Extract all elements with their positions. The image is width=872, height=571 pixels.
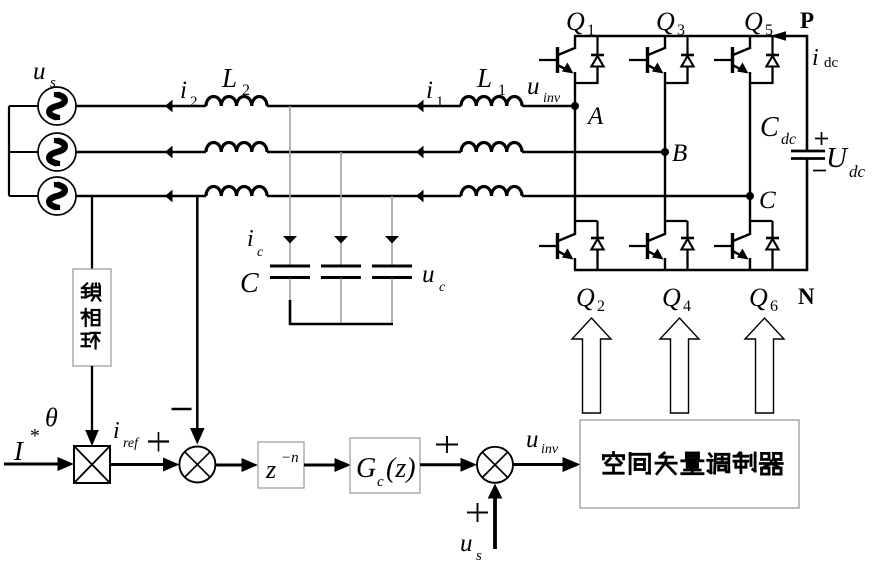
wire z to Gc bbox=[304, 464, 336, 467]
svg-text:i: i bbox=[812, 45, 819, 71]
wire phase line 2 bbox=[76, 151, 665, 153]
arrow into z bbox=[242, 458, 259, 472]
svg-text:dc: dc bbox=[849, 162, 866, 181]
svg-text:u: u bbox=[33, 58, 46, 85]
arrow i1 phase 3 bbox=[416, 190, 424, 203]
arrow i2 phase 1 bbox=[165, 100, 173, 113]
svg-text:s: s bbox=[50, 75, 56, 91]
svg-text:N: N bbox=[798, 284, 815, 309]
AC source V3 bbox=[38, 177, 76, 215]
inductor L1 phase 1 bbox=[461, 97, 522, 107]
svg-text:Q: Q bbox=[576, 283, 595, 312]
transistor Q1 bbox=[539, 36, 604, 106]
svg-text:6: 6 bbox=[770, 298, 778, 315]
wire N rail bbox=[574, 269, 808, 272]
inductor L2 phase 3 bbox=[206, 187, 267, 197]
wire phase3 to PLL bbox=[91, 196, 93, 270]
svg-text:Q: Q bbox=[662, 283, 681, 312]
wire cap branch 1 bbox=[289, 106, 291, 266]
multiplier box bbox=[74, 446, 110, 483]
AC source V2 bbox=[38, 133, 76, 171]
svg-text:2: 2 bbox=[190, 94, 198, 110]
svg-text:Q: Q bbox=[744, 7, 763, 36]
svg-text:u: u bbox=[422, 261, 435, 288]
label PLL 环 bbox=[82, 333, 100, 349]
arrow i2 phase 2 bbox=[165, 146, 173, 159]
arrow i_c 2 bbox=[334, 236, 348, 244]
summing junction 1 bbox=[179, 447, 215, 483]
arrow into sum1 bbox=[163, 458, 180, 472]
summing junction 2 bbox=[477, 447, 513, 483]
arrow I* in bbox=[58, 457, 75, 471]
block z box bbox=[258, 442, 304, 488]
svg-text:C: C bbox=[759, 187, 776, 214]
svg-text:ref: ref bbox=[123, 436, 140, 451]
svg-text:L: L bbox=[221, 63, 237, 93]
wire right rail upper bbox=[806, 35, 809, 150]
wire right rail lower bbox=[806, 159, 809, 271]
inductor L1 phase 3 bbox=[461, 187, 522, 197]
wire mult to sum1 bbox=[110, 463, 165, 466]
wire cap star left bbox=[289, 300, 292, 325]
label minus Udc bbox=[813, 170, 826, 172]
svg-text:C: C bbox=[760, 112, 779, 143]
svg-text:i: i bbox=[113, 418, 120, 444]
svg-text:A: A bbox=[586, 103, 604, 130]
svg-text:*: * bbox=[29, 425, 39, 447]
svg-text:u: u bbox=[527, 73, 540, 100]
svg-text:inv: inv bbox=[543, 91, 561, 106]
svg-text:θ: θ bbox=[45, 403, 58, 432]
svg-text:G: G bbox=[356, 453, 376, 484]
arrow into Gc bbox=[335, 458, 352, 472]
inductor L2 phase 2 bbox=[206, 143, 267, 153]
wire phase line 1 bbox=[76, 105, 575, 107]
wire Gc to sum2 bbox=[420, 463, 462, 466]
hollow gate arrow 1 bbox=[572, 318, 611, 413]
svg-text:Q: Q bbox=[656, 7, 675, 36]
capacitor C phase 2 bbox=[321, 266, 361, 278]
transistor Q3 bbox=[629, 36, 694, 152]
svg-text:4: 4 bbox=[683, 298, 691, 315]
arrow i2 phase 3 bbox=[165, 190, 173, 203]
hollow gate arrow 3 bbox=[745, 318, 784, 413]
svg-text:B: B bbox=[672, 140, 687, 167]
svg-text:5: 5 bbox=[765, 22, 773, 39]
arrow fb into sum1 bbox=[190, 428, 205, 445]
svg-text:3: 3 bbox=[677, 22, 685, 39]
AC source V1 bbox=[38, 87, 76, 125]
wire sum1 to z bbox=[215, 464, 243, 467]
wire phase line 3 bbox=[76, 195, 750, 197]
svg-text:−n: −n bbox=[281, 450, 299, 466]
label plus sum1 bbox=[148, 440, 169, 442]
wire cap branch 3 bbox=[391, 196, 393, 266]
wire phase3 to sum1 bbox=[196, 197, 199, 430]
wire P rail bbox=[574, 35, 808, 38]
svg-text:1: 1 bbox=[436, 94, 444, 110]
label minus sum1 bbox=[172, 408, 192, 411]
svg-text:U: U bbox=[826, 142, 849, 174]
arrow us into sum2 bbox=[488, 484, 503, 499]
arrow i_c 1 bbox=[283, 236, 297, 244]
svg-text:i: i bbox=[180, 77, 187, 104]
wire cap star bus bbox=[289, 323, 393, 325]
wire cap bottom 1 bbox=[289, 279, 291, 302]
wire I* input bbox=[4, 463, 58, 466]
label SVPWM text bbox=[603, 453, 782, 475]
svg-text:P: P bbox=[800, 8, 814, 33]
svg-text:Q: Q bbox=[566, 7, 585, 36]
transistor Q4 bbox=[629, 152, 694, 270]
svg-text:inv: inv bbox=[541, 442, 559, 457]
wire PLL to multiplier bbox=[91, 366, 93, 430]
svg-text:s: s bbox=[476, 548, 482, 564]
svg-text:c: c bbox=[257, 245, 264, 260]
wire sum2 to svpwm bbox=[513, 463, 566, 466]
label plus sum2 bbox=[436, 444, 458, 446]
block PLL box bbox=[73, 269, 111, 366]
wire us to sum2 bbox=[493, 497, 497, 549]
node C bbox=[746, 192, 754, 200]
label PLL 相 bbox=[82, 309, 100, 326]
svg-text:Q: Q bbox=[749, 283, 768, 312]
wire left bus bbox=[8, 106, 10, 196]
arrow i1 phase 1 bbox=[416, 100, 424, 113]
arrow i1 phase 2 bbox=[416, 146, 424, 159]
block Gc box bbox=[350, 438, 420, 493]
svg-text:c: c bbox=[439, 280, 446, 295]
capacitor C phase 1 bbox=[270, 266, 310, 278]
svg-text:(z): (z) bbox=[386, 453, 416, 484]
svg-text:L: L bbox=[476, 63, 492, 93]
svg-text:c: c bbox=[377, 474, 384, 490]
label PLL 锁 bbox=[82, 283, 100, 300]
node B bbox=[661, 148, 669, 156]
transistor Q6 bbox=[714, 196, 779, 270]
wire source stub 1 bbox=[9, 105, 38, 107]
svg-text:i: i bbox=[426, 77, 433, 104]
svg-text:C: C bbox=[240, 268, 259, 299]
inductor L1 phase 2 bbox=[461, 143, 522, 153]
wire source stub 2 bbox=[9, 151, 38, 153]
arrow i_c 3 bbox=[385, 236, 399, 244]
svg-text:1: 1 bbox=[587, 22, 595, 39]
inductor L2 phase 1 bbox=[206, 97, 267, 107]
arrow PLL out bbox=[85, 430, 99, 446]
arrow into sum2 bbox=[461, 458, 478, 472]
svg-text:u: u bbox=[526, 426, 539, 453]
svg-text:dc: dc bbox=[781, 131, 796, 148]
arrow i_dc bbox=[770, 31, 786, 41]
svg-text:u: u bbox=[460, 530, 473, 557]
svg-text:z: z bbox=[265, 455, 276, 484]
wire cap branch 2 bbox=[340, 152, 342, 266]
arrow into svpwm bbox=[563, 457, 581, 472]
block SVPWM box bbox=[580, 420, 799, 508]
wire source stub 3 bbox=[9, 195, 38, 197]
capacitor C phase 3 bbox=[372, 266, 412, 278]
capacitor C_dc bbox=[791, 151, 825, 159]
hollow gate arrow 2 bbox=[660, 318, 699, 413]
wire cap bottom 2 bbox=[340, 279, 342, 325]
svg-text:2: 2 bbox=[597, 298, 605, 315]
transistor Q2 bbox=[539, 106, 604, 270]
svg-text:i: i bbox=[247, 226, 254, 252]
wire cap bottom 3 bbox=[391, 279, 393, 325]
transistor Q5 bbox=[714, 36, 779, 196]
node A bbox=[571, 102, 579, 110]
label plus us bbox=[467, 512, 488, 514]
label plus Udc bbox=[815, 138, 828, 140]
svg-text:dc: dc bbox=[824, 55, 839, 71]
